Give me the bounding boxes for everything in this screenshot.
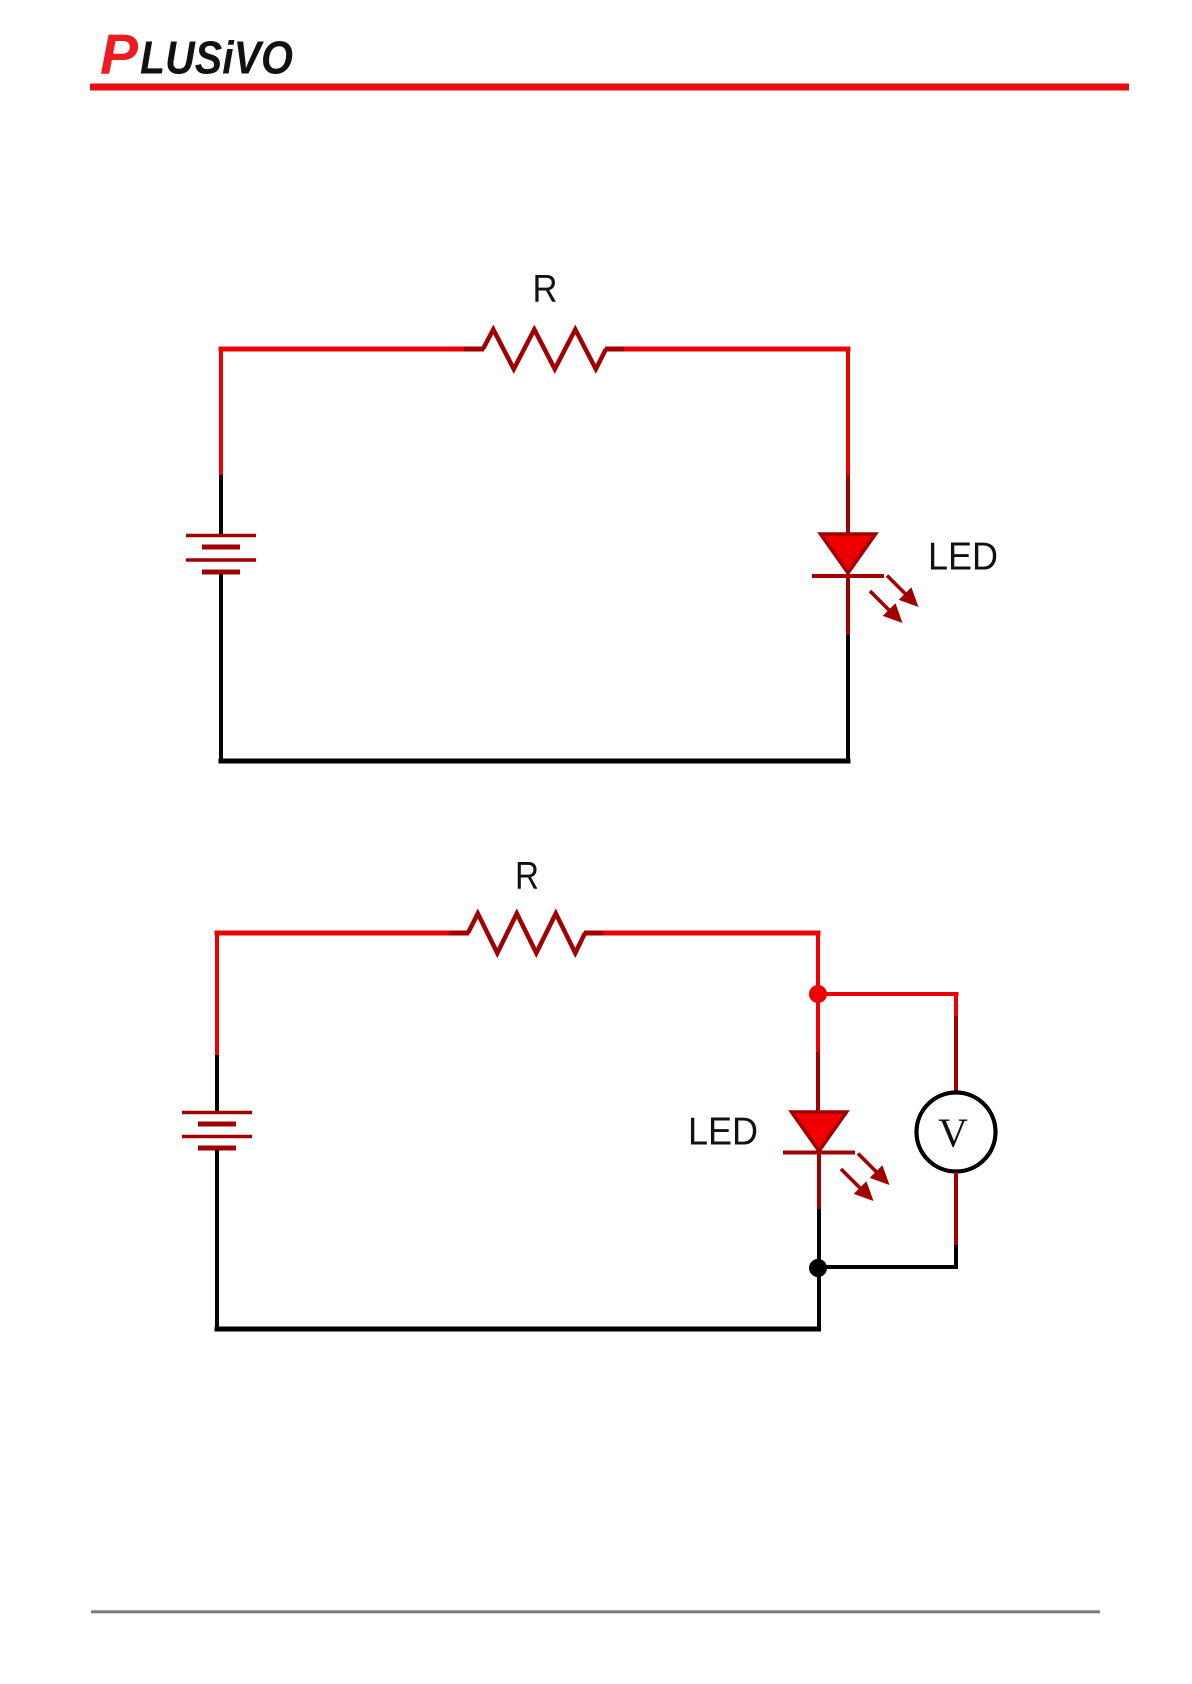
wire right dark-red cathode lead (circuit 1): [846, 574, 850, 637]
wire left red (circuit 1): [219, 347, 223, 478]
wire right black (circuit 1): [846, 635, 850, 764]
wire right dark-red anode lead (circuit 1): [846, 475, 850, 536]
resistor R1 zigzag: [483, 330, 606, 370]
wire voltmeter branch right dark-red: [954, 1016, 958, 1092]
wire top-right red (circuit 1): [624, 347, 851, 352]
logo PLUSIVO: [100, 23, 293, 87]
wire voltmeter branch top red: [816, 992, 959, 996]
resistor R2 right lead: [584, 931, 605, 936]
wire voltmeter branch bottom dark-red: [954, 1172, 958, 1247]
wire left black upper (circuit 1): [219, 475, 223, 536]
wire left black upper (circuit 2): [215, 1055, 219, 1113]
svg-text:R: R: [515, 855, 539, 898]
resistor R2 left lead: [449, 931, 469, 936]
wire top-right red (circuit 2): [603, 931, 821, 936]
wire voltmeter branch right red: [954, 992, 958, 1018]
resistor R1 right lead: [605, 347, 626, 352]
wire top-left red (circuit 1): [219, 347, 467, 352]
wire left black lower (circuit 1): [219, 574, 223, 764]
svg-text:LUSiVO: LUSiVO: [140, 32, 293, 84]
wire right red (circuit 2): [816, 931, 820, 1055]
battery BT1: [186, 536, 256, 573]
wire left black lower (circuit 2): [215, 1150, 219, 1332]
wire top-left red (circuit 2): [215, 931, 452, 936]
svg-text:V: V: [938, 1110, 968, 1156]
battery BT2: [182, 1113, 252, 1149]
node A junction dot red: [809, 985, 827, 1003]
wire voltmeter branch bottom horizontal black: [816, 1265, 958, 1269]
node B junction dot black: [809, 1259, 827, 1277]
svg-text:R: R: [533, 268, 558, 311]
resistor R2 zigzag: [468, 914, 585, 954]
resistor R1 left lead: [464, 347, 484, 352]
wire voltmeter branch bottom black: [954, 1245, 958, 1269]
wire bottom black (circuit 2): [215, 1327, 821, 1332]
header red rule: [90, 84, 1129, 91]
footer rule: [91, 1610, 1100, 1613]
wire right dark-red cathode lead (circuit 2): [817, 1152, 821, 1211]
wire bottom black (circuit 1): [219, 759, 851, 764]
wire right red (circuit 1): [846, 347, 850, 478]
voltmeter V1: [917, 1093, 996, 1172]
svg-text:LED: LED: [688, 1111, 758, 1154]
wire right dark-red anode lead (circuit 2): [816, 1052, 820, 1114]
LED D1: [812, 534, 919, 623]
svg-text:LED: LED: [928, 536, 998, 579]
wire right black (circuit 2): [817, 1209, 821, 1332]
wire left red (circuit 2): [215, 931, 219, 1058]
svg-text:P: P: [100, 23, 139, 87]
LED D2: [783, 1112, 890, 1201]
